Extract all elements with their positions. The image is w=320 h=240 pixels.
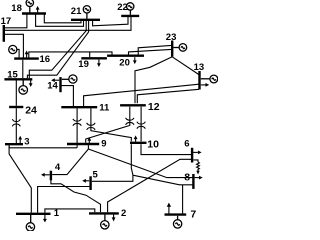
wire line 11-13: [84, 84, 199, 106]
transformer 3-24: [12, 119, 20, 126]
bus 21: [71, 19, 100, 21]
bus 8: [192, 174, 194, 189]
svg-text:16: 16: [40, 54, 51, 65]
svg-text:15: 15: [7, 69, 18, 80]
load bus 10: [134, 135, 138, 141]
wire line 15-24: [15, 81, 17, 106]
generator G16: [9, 45, 19, 57]
wire line 12-13: [137, 89, 199, 103]
load bus 7: [167, 203, 171, 214]
generator G1: [26, 215, 34, 231]
wire line 5-10: [92, 144, 133, 181]
reactor bus 6: [193, 160, 199, 175]
svg-text:4: 4: [55, 162, 61, 173]
load bus 13: [201, 83, 209, 87]
svg-text:21: 21: [71, 6, 82, 17]
bus 22: [121, 15, 139, 17]
wire line 15-21 circuit 2: [27, 21, 88, 78]
bus 16: [14, 57, 39, 59]
generator G2: [101, 215, 109, 229]
bus 9: [67, 143, 99, 145]
generator G14: [62, 75, 77, 83]
svg-text:23: 23: [166, 32, 177, 43]
wire line 1-2: [45, 209, 95, 213]
load bus 8: [195, 176, 203, 180]
bus 17: [3, 25, 5, 42]
wire line 15-21 circuit 1: [29, 21, 86, 78]
svg-text:11: 11: [99, 102, 110, 113]
wire line 8-9: [88, 149, 192, 178]
svg-text:3: 3: [24, 137, 29, 148]
generator G18: [26, 0, 33, 12]
wire line 15-16: [22, 60, 24, 78]
load bus 20: [133, 57, 137, 64]
bus 20: [107, 55, 144, 57]
wire line 10-12 through transformer T4: [140, 107, 142, 142]
wire line 21-22: [93, 17, 128, 26]
generator G7: [173, 216, 181, 228]
load bus 5: [82, 179, 89, 183]
svg-text:7: 7: [190, 209, 196, 221]
svg-text:20: 20: [119, 57, 130, 68]
svg-text:18: 18: [11, 3, 22, 14]
wire line 6-10: [141, 144, 191, 154]
bus 1: [16, 213, 51, 215]
wire line 16-19 and 19-20: [29, 52, 112, 58]
bus 18: [22, 12, 46, 14]
wire line 18-21 circuit 2: [36, 15, 84, 27]
wire line 17-22: [5, 17, 131, 30]
svg-text:5: 5: [93, 169, 99, 180]
load bus 15: [29, 81, 33, 88]
load bus 19: [97, 60, 101, 67]
wire line 7-8: [182, 185, 184, 214]
wire line 17-18: [5, 15, 27, 28]
transformer T4 10-12: [137, 122, 145, 129]
wire transformer column 9-11: [76, 108, 78, 147]
wire line 10-11 through transformer T2: [91, 108, 131, 141]
load bus 9: [87, 137, 91, 143]
wire line 24-3 through transformer: [15, 108, 17, 143]
wire line 20-23 circuit 2: [129, 49, 172, 54]
svg-text:2: 2: [121, 208, 126, 219]
wire line 9-12 through transformer T3: [86, 107, 130, 143]
svg-text:12: 12: [148, 101, 160, 113]
bus 3: [5, 143, 23, 145]
bus 11: [61, 106, 97, 108]
load bus 1: [43, 215, 47, 222]
generator G15: [19, 81, 28, 95]
bus 2: [89, 212, 119, 214]
svg-text:14: 14: [47, 81, 58, 92]
wire line 1-3: [9, 145, 31, 212]
wire line 1-5: [38, 187, 90, 213]
wire line 20-23 circuit 1: [138, 45, 171, 54]
svg-text:9: 9: [101, 138, 106, 149]
bus 5: [89, 176, 91, 190]
load bus 16: [25, 51, 29, 58]
wire line 11-14: [61, 86, 73, 106]
svg-text:19: 19: [78, 59, 89, 70]
load bus 4: [41, 173, 50, 177]
bus 19: [81, 57, 107, 59]
svg-text:8: 8: [184, 171, 190, 183]
bus 13: [198, 71, 200, 90]
svg-text:10: 10: [147, 138, 159, 150]
wire line 8-10: [133, 175, 193, 185]
wire line 4-9: [52, 149, 88, 175]
bus 24: [9, 106, 23, 108]
wire line 17-16: [5, 34, 24, 57]
transformer T3 9-12: [126, 118, 134, 125]
load bus 6: [193, 151, 202, 155]
bus 12: [120, 104, 146, 106]
bus 15: [4, 78, 32, 80]
svg-text:1: 1: [54, 208, 60, 219]
bus 14: [59, 77, 61, 92]
wire line 12-23: [135, 57, 172, 103]
wire line 13-23: [172, 57, 199, 75]
wire line 18-21 circuit 1: [44, 15, 81, 23]
bus 7: [165, 213, 187, 215]
wire line 3-9: [9, 145, 77, 147]
bus 23: [171, 41, 173, 57]
bus 10: [130, 142, 147, 144]
svg-text:22: 22: [117, 2, 128, 13]
svg-text:6: 6: [184, 138, 189, 149]
load bus 3: [18, 136, 22, 143]
wire drop to bus 19: [89, 52, 91, 57]
wire line 2-6: [108, 159, 191, 212]
load bus 18: [36, 6, 40, 12]
svg-text:13: 13: [194, 62, 205, 73]
bus 4: [50, 171, 52, 181]
generator G13: [201, 75, 218, 83]
transformer T1 9-11: [73, 119, 81, 126]
wire bus 9 lower drop: [87, 145, 89, 149]
bus 6: [191, 148, 193, 163]
generator G23: [174, 44, 187, 52]
load bus 14: [51, 78, 59, 82]
transformer T2 10-11: [87, 123, 95, 130]
svg-text:17: 17: [1, 16, 12, 27]
load bus 2: [112, 215, 116, 222]
generator G21: [83, 6, 90, 19]
svg-text:24: 24: [25, 104, 37, 116]
generator G22: [127, 3, 134, 15]
wire line 2-4: [51, 180, 101, 212]
